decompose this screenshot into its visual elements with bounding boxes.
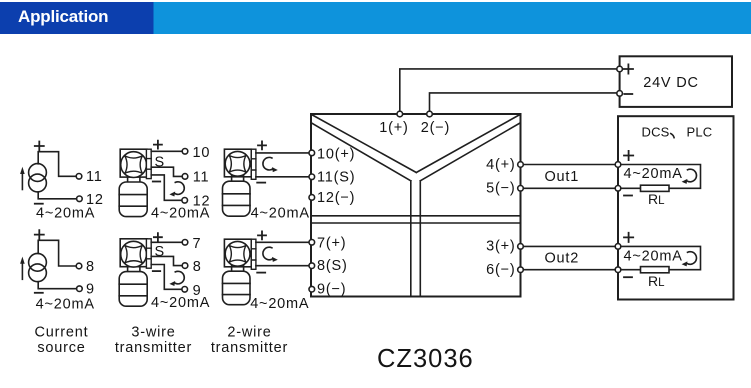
svg-text:7(+): 7(+) [317, 235, 346, 251]
current source CS2 minus sign [35, 292, 43, 294]
header bar light blue segment [0, 2, 751, 34]
TX2 plus sign [154, 233, 162, 241]
wire TX4 - to isolator terminal 8 [256, 265, 309, 267]
svg-text:12(−): 12(−) [317, 190, 355, 206]
terminal circle 11 (TX1) [182, 174, 188, 180]
Out2 plus sign [624, 233, 633, 242]
current source CS1 direction arrow [21, 173, 23, 190]
svg-text:Current: Current [35, 324, 89, 340]
svg-text:8: 8 [193, 259, 202, 275]
svg-text:PLC: PLC [687, 125, 713, 140]
svg-text:4(+): 4(+) [486, 157, 515, 173]
svg-text:transmitter: transmitter [211, 340, 288, 356]
TX3 head inner arcs [229, 156, 246, 173]
Out1 plus sign [624, 151, 633, 160]
terminal circle 12 (current source) [77, 196, 83, 202]
isolator terminal 5 circle [518, 186, 524, 192]
TX3 terminal strip [251, 149, 256, 179]
isolator terminal 8 circle [309, 263, 315, 269]
2-wire transmitter TX3 square [224, 149, 251, 177]
svg-text:Out2: Out2 [544, 250, 579, 266]
svg-text:S: S [155, 244, 165, 260]
svg-text:6(−): 6(−) [486, 262, 515, 278]
wire terminal 1 to 24V DC + [400, 69, 617, 111]
wire isolator 3 to DCS Out2 + [523, 245, 615, 247]
svg-text:10: 10 [193, 145, 211, 161]
DCS PLC box [618, 116, 734, 299]
DCS Out2 - terminal circle [615, 267, 621, 273]
terminal circle 7 (TX2) [182, 240, 188, 246]
TX4 neck [232, 266, 244, 272]
TX2 head inner arcs [125, 246, 142, 263]
TX4 plus sign [258, 231, 266, 239]
TX3 plus sign [258, 141, 266, 149]
24V DC box [620, 56, 732, 107]
svg-text:transmitter: transmitter [115, 340, 192, 356]
TX2 terminal strip [146, 239, 151, 268]
wire TX2 + to terminal 7 [151, 241, 182, 243]
Out1 loop wiring [621, 165, 701, 189]
resistor RL2 [641, 267, 670, 273]
wire CS1 bottom: - to terminal 12 [38, 192, 76, 199]
terminal circle 9 (TX2) [182, 287, 188, 293]
TX4 minus sign [257, 272, 265, 274]
terminal circle 8 (TX2) [182, 263, 188, 269]
wire TX3 - to isolator terminal 11 [256, 176, 309, 178]
DCS Out2 + terminal circle [615, 244, 621, 250]
wire CS2 bottom: - to terminal 9 [38, 282, 76, 289]
wire TX3 + to isolator terminal 10 [256, 152, 309, 154]
TX1 loop arrow [169, 182, 184, 197]
wire isolator 6 to DCS Out2 - [523, 269, 615, 271]
current source CS1 circle lower [29, 174, 47, 192]
3-wire transmitter TX2 square [120, 239, 147, 267]
24V DC - terminal circle [617, 91, 623, 97]
isolator terminal 12 circle [309, 195, 315, 201]
svg-text:9(−): 9(−) [317, 281, 346, 297]
current source CS1 plus sign [35, 142, 44, 151]
isolator horizontal channel [311, 216, 521, 223]
wire CS2 top: + to circle and to terminal 8 [38, 240, 76, 266]
header bar dark blue segment [0, 2, 154, 34]
current source CS1 minus sign [35, 203, 43, 205]
svg-text:4~20mA: 4~20mA [36, 205, 95, 221]
svg-text:RL: RL [648, 191, 665, 207]
TX1 body [119, 182, 147, 217]
24V DC minus sign [624, 93, 632, 95]
TX2 loop arrow [169, 271, 184, 286]
wire CS1 top: + to circle and to terminal 11 [38, 152, 76, 177]
terminal circle 11 (current source) [76, 174, 82, 180]
TX3 body [223, 181, 251, 216]
Out2 loop arrow [682, 252, 697, 267]
svg-text:1(+): 1(+) [379, 120, 408, 136]
Out2 loop wiring [621, 246, 701, 269]
TX2 neck [128, 266, 140, 271]
isolator terminal 3 circle [518, 244, 524, 250]
wire TX4 + to isolator terminal 7 [256, 241, 309, 243]
svg-text:4~20mA: 4~20mA [251, 205, 310, 221]
TX3 minus sign [257, 182, 265, 184]
svg-text:8(S): 8(S) [317, 258, 348, 274]
24V DC + terminal circle [617, 66, 623, 72]
TX3 body lines [223, 194, 251, 206]
isolator terminal 9 circle [309, 286, 315, 292]
TX4 body lines [223, 283, 251, 294]
svg-text:3-wire: 3-wire [131, 324, 175, 340]
Out1 minus sign [624, 195, 632, 197]
wire TX1 + to terminal 10 [151, 150, 182, 152]
svg-text:2-wire: 2-wire [227, 324, 271, 340]
3-wire transmitter TX1 head circle [121, 152, 147, 178]
svg-text:9: 9 [86, 282, 95, 298]
svg-text:11: 11 [86, 169, 103, 185]
TX1 head inner arcs [125, 156, 142, 173]
isolator Y-pattern vertical channel [411, 181, 421, 296]
isolator terminal 1 circle [397, 111, 403, 117]
3-wire transmitter TX2 head circle [121, 241, 147, 267]
TX1 terminal strip [146, 149, 151, 178]
wire TX1 S to terminal 11 [151, 167, 182, 176]
DCS Out1 - terminal circle [615, 186, 621, 192]
2-wire transmitter TX4 square [224, 239, 251, 267]
svg-text:3(+): 3(+) [486, 239, 515, 255]
TX1 body lines [119, 195, 147, 207]
svg-text:2(−): 2(−) [421, 120, 450, 136]
svg-text:10(+): 10(+) [317, 147, 355, 163]
svg-text:11: 11 [193, 170, 210, 186]
isolator U1 box [311, 114, 521, 297]
TX1 neck [128, 177, 140, 182]
2-wire transmitter TX3 head circle [225, 151, 250, 176]
svg-text:DCS: DCS [642, 125, 670, 140]
current source CS2 circle upper [29, 253, 47, 271]
TX1 plus sign [154, 141, 162, 149]
current source CS2 plus sign [35, 230, 44, 239]
svg-text:Out1: Out1 [544, 169, 579, 185]
svg-text:4~20mA: 4~20mA [151, 205, 210, 221]
svg-text:CZ3036: CZ3036 [377, 345, 474, 373]
24V DC plus sign [624, 64, 633, 73]
Out1 loop arrow [682, 169, 697, 184]
TX4 loop arrow [263, 247, 278, 262]
wire TX2 S to terminal 8 [151, 256, 182, 265]
current source CS2 circle lower [29, 264, 47, 282]
svg-text:RL: RL [648, 273, 665, 289]
svg-text:source: source [37, 340, 85, 356]
terminal circle 9 (current source) [77, 286, 83, 292]
wire TX2 - to terminal 9 [151, 265, 182, 290]
DCS Out1 + terminal circle [615, 162, 621, 168]
wire terminal 2 to 24V DC - [430, 93, 617, 111]
terminal circle 12 (TX1) [182, 198, 188, 204]
TX2 body lines [119, 284, 147, 296]
TX3 loop arrow [263, 157, 278, 172]
2-wire transmitter TX4 head circle [225, 241, 250, 266]
svg-text:Application: Application [18, 7, 108, 26]
isolator terminal 10 circle [309, 150, 315, 156]
wire isolator 4 to DCS Out1 + [523, 164, 615, 166]
isolator terminal 7 circle [309, 240, 315, 246]
svg-text:4~20mA: 4~20mA [624, 166, 683, 182]
terminal circle 10 (TX1) [182, 149, 188, 155]
TX4 terminal strip [251, 239, 256, 269]
TX2 minus sign [153, 270, 160, 272]
svg-text:11(S): 11(S) [317, 169, 355, 185]
svg-text:4~20mA: 4~20mA [151, 295, 210, 311]
wire TX1 - to terminal 12 [151, 175, 182, 200]
svg-text:7: 7 [193, 236, 202, 252]
wire isolator 5 to DCS Out1 - [523, 187, 615, 189]
terminal circle 8 (current source) [76, 263, 82, 269]
svg-text:4~20mA: 4~20mA [624, 249, 683, 265]
isolator terminal 2 circle [427, 111, 433, 117]
svg-text:4~20mA: 4~20mA [250, 296, 309, 312]
current source CS1 circle upper [29, 164, 47, 182]
resistor RL1 [641, 185, 670, 191]
TX1 minus sign [153, 181, 160, 183]
TX2 body [119, 272, 147, 307]
current source CS2 direction arrow [21, 262, 23, 279]
svg-text:24V DC: 24V DC [643, 75, 699, 91]
isolator terminal 6 circle [518, 267, 524, 273]
svg-text:5(−): 5(−) [486, 181, 515, 197]
TX4 head inner arcs [229, 246, 246, 263]
isolator Y-pattern diagonals [312, 115, 521, 181]
svg-text:4~20mA: 4~20mA [36, 296, 95, 312]
Out2 minus sign [624, 276, 632, 278]
TX3 neck [232, 176, 244, 182]
isolator terminal 11 circle [309, 174, 315, 180]
isolator terminal 4 circle [518, 162, 524, 168]
svg-text:8: 8 [86, 259, 95, 275]
TX4 body [223, 271, 251, 305]
3-wire transmitter TX1 square [120, 149, 147, 177]
